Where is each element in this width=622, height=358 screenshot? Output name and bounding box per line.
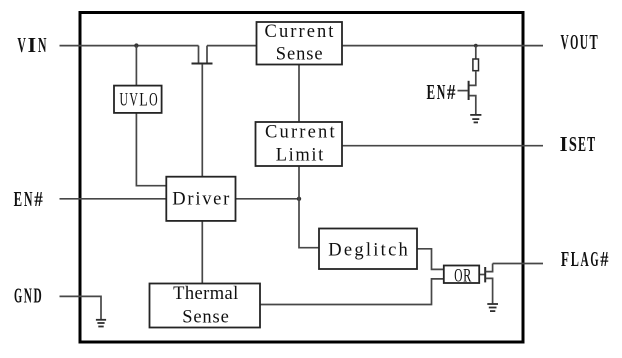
svg-text:#: # [447, 80, 456, 104]
transistor Q3 [484, 267, 486, 282]
svg-text:E: E [14, 187, 23, 211]
wire FLAG# pin lead [493, 263, 543, 265]
svg-text:N: N [24, 187, 33, 211]
wire VOUT to R1 [475, 46, 477, 59]
svg-text:E: E [578, 132, 586, 156]
svg-text:N: N [24, 284, 32, 308]
block Thermal Sense [150, 284, 261, 328]
svg-text:U: U [119, 90, 128, 110]
wire Q3 source to ground [486, 278, 493, 303]
svg-text:V: V [129, 90, 138, 110]
svg-text:O: O [570, 30, 578, 54]
svg-text:Current: Current [265, 22, 335, 42]
wire Current Limit to ISET pin [342, 145, 543, 147]
svg-text:Thermal: Thermal [173, 284, 238, 304]
svg-text:D: D [33, 284, 41, 308]
svg-text:G: G [14, 284, 22, 308]
svg-text:N: N [437, 80, 446, 104]
pass MOSFET Q1 [192, 46, 213, 177]
wire EN# pin lead [60, 198, 167, 200]
svg-text:U: U [580, 30, 588, 54]
wire Q2 source to ground [469, 96, 476, 115]
svg-text:A: A [581, 247, 590, 271]
node VIN/UVLO junction [134, 43, 138, 47]
svg-text:#: # [600, 247, 609, 271]
wire Thermal Sense to OR input 2 [260, 279, 443, 305]
wire Q1 to Current Sense [207, 45, 257, 47]
node VOUT/R1 junction [474, 44, 478, 48]
svg-text:#: # [34, 187, 43, 211]
label OR [454, 266, 471, 286]
svg-text:Sense: Sense [276, 44, 323, 64]
svg-text:O: O [454, 266, 462, 286]
svg-text:L: L [571, 247, 579, 271]
node Driver/Current-Limit junction [297, 197, 301, 201]
svg-text:E: E [427, 80, 436, 104]
wire GND pin lead [60, 296, 102, 319]
block Driver [166, 177, 235, 221]
wire OR output to Q3 gate [480, 274, 485, 276]
svg-text:N: N [38, 33, 47, 57]
svg-text:Sense: Sense [182, 308, 229, 328]
block Deglitch [319, 229, 417, 270]
block OR [444, 266, 479, 284]
wire UVLO input [135, 46, 137, 86]
resistor R1 [473, 59, 479, 71]
svg-text:G: G [590, 247, 598, 271]
block Current Sense [257, 22, 343, 65]
IC boundary box [80, 13, 523, 343]
wire EN# label to Q2 gate [458, 90, 469, 92]
svg-text:I: I [560, 132, 568, 156]
label UVLO [119, 90, 157, 110]
ground below Q2 [470, 115, 481, 123]
wire Current Limit to Deglitch [299, 166, 319, 248]
svg-text:L: L [139, 90, 148, 110]
svg-text:V: V [17, 33, 26, 57]
wire VIN pin lead [60, 45, 199, 47]
svg-text:Deglitch: Deglitch [328, 241, 408, 261]
svg-text:Current: Current [265, 123, 335, 143]
wire Deglitch to OR input 1 [417, 249, 443, 270]
block UVLO [114, 86, 162, 113]
wire Q3 drain to FLAG# line [486, 264, 493, 272]
svg-text:F: F [561, 247, 569, 271]
wire Driver to Thermal Sense [201, 221, 203, 284]
wire Current Sense to VOUT pin [342, 45, 543, 47]
svg-text:R: R [463, 266, 472, 286]
svg-text:T: T [589, 30, 597, 54]
ground at GND pin [96, 320, 106, 327]
wire Current Sense to Current Limit [298, 65, 300, 123]
svg-text:O: O [149, 90, 158, 110]
wire UVLO to Driver [136, 113, 166, 186]
wire Driver output to node [236, 198, 300, 200]
svg-text:I: I [28, 33, 37, 57]
transistor Q2 [468, 81, 470, 100]
block Current Limit [256, 122, 343, 166]
ground below Q3 [487, 304, 498, 311]
svg-text:S: S [569, 132, 577, 156]
wire R1 to Q2 drain [469, 71, 476, 86]
svg-text:T: T [587, 132, 595, 156]
svg-text:V: V [560, 30, 568, 54]
